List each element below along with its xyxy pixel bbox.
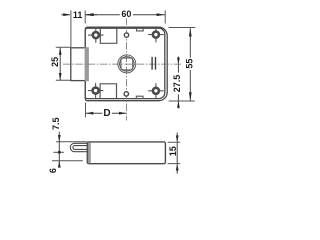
- screw BR head: [153, 88, 159, 94]
- detail bars near right edge: [152, 57, 155, 70]
- dim 55: line with arrows: [189, 28, 191, 100]
- dim 6: extension line bottom: [52, 160, 83, 162]
- svg-text:11: 11: [73, 10, 83, 20]
- lock case front view: cover plate (inner rounded rect): [85, 28, 165, 98]
- small tab bottom: [136, 96, 143, 98]
- screw BL cross: [88, 83, 104, 99]
- dim 6: outside arrow: [58, 161, 61, 168]
- small tab top: [137, 28, 144, 31]
- svg-text:27.5: 27.5: [172, 75, 182, 93]
- dim 27.5: label: [173, 73, 182, 95]
- screw BL head: [93, 88, 99, 94]
- dim 55: extension line top: [169, 27, 196, 29]
- svg-text:15: 15: [168, 146, 178, 156]
- side view faceplate edge band: [88, 142, 91, 163]
- dim 7.5: vertical line: [58, 132, 60, 168]
- dim 25: line with arrows: [59, 48, 61, 81]
- dim 15: extension lines: [168, 142, 181, 163]
- dim 7.5/6: dot at shared end: [58, 151, 61, 154]
- cut-out notch top-left: [100, 28, 117, 43]
- dim 27.5: outside arrow top: [177, 57, 179, 64]
- screw TR head: [153, 32, 159, 38]
- dim 55/27.5: extension line bottom: [169, 100, 195, 102]
- cylinder boss inner circle: [120, 57, 135, 72]
- lock case front view: back plate (outer rounded rect): [85, 27, 167, 101]
- dim 27.5: outside arrow bottom: [177, 102, 179, 109]
- dim 60: label: [120, 9, 133, 18]
- svg-text:25: 25: [50, 57, 60, 67]
- spindle square: [121, 58, 133, 70]
- side view case body: [87, 142, 165, 164]
- cylinder boss outer circle: [118, 55, 136, 73]
- dim 27.5: line: [177, 64, 179, 101]
- svg-text:D: D: [103, 108, 110, 119]
- bolt/case overlap shading band: [85, 47, 89, 81]
- screw BR cross: [148, 83, 164, 99]
- bolt (latch protruding left): [71, 48, 86, 81]
- dim 7.5/6: extension line middle: [53, 151, 64, 153]
- screw TR cross: [148, 27, 164, 43]
- dim 11: arrows and line: [61, 14, 97, 16]
- dim D: extension line left: [85, 103, 87, 118]
- svg-text:7.5: 7.5: [51, 118, 61, 131]
- centerline vertical (through cylinder axis): [125, 18, 127, 121]
- svg-text:55: 55: [184, 59, 194, 69]
- dim 15: outside arrow top: [176, 135, 179, 142]
- dim 25: extension lines: [56, 47, 70, 80]
- dim 15: outside arrow bottom: [176, 164, 179, 171]
- side view loop inner: [73, 146, 88, 150]
- cut-out notch bottom-left: [100, 84, 116, 99]
- dim 7.5: outside arrow top: [58, 135, 61, 142]
- dim 55: label: [186, 58, 195, 70]
- dim 60: extension line right: [164, 10, 166, 23]
- dim 11: extension line left (bolt edge extended): [70, 10, 72, 47]
- dim 15: vertical line: [176, 133, 178, 174]
- dim 60: line: [85, 14, 165, 16]
- dim D: line with arrows: [86, 112, 126, 114]
- small hole bottom center: [124, 92, 128, 96]
- side view loop (bolt guide) outer: [70, 143, 88, 151]
- small hole top center: [124, 33, 128, 37]
- dim 11/60: shared extension line (case left edge): [84, 10, 86, 23]
- centerline horizontal: [63, 63, 181, 65]
- svg-text:6: 6: [48, 168, 58, 173]
- screw TL head: [93, 32, 99, 38]
- screw TL cross: [88, 27, 104, 43]
- dim 7.5: extension line top (case top extended): [56, 141, 87, 143]
- dim D: label: [102, 107, 112, 117]
- svg-text:60: 60: [121, 9, 131, 19]
